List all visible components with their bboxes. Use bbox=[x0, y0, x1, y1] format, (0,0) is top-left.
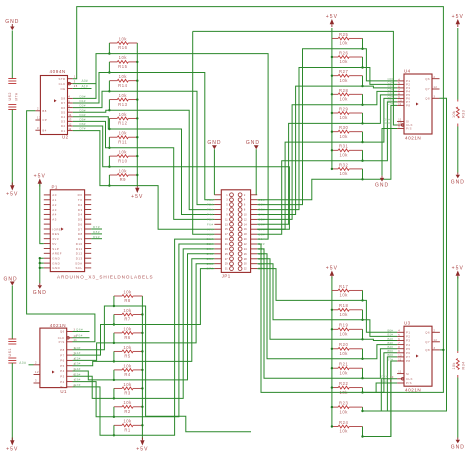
svg-text:R13: R13 bbox=[118, 102, 127, 107]
wire U$2 to +5V bbox=[11, 110, 13, 186]
svg-text:R22: R22 bbox=[339, 381, 348, 386]
wire net ROW1 U2 to ladder1 to JP1 bbox=[73, 73, 215, 200]
wire net COL7 JP1 to ladder2 to U4 bbox=[257, 105, 397, 199]
svg-text:+5V: +5V bbox=[34, 173, 46, 179]
wire net COL4 JP1 to ladder2 to U4 bbox=[257, 95, 397, 224]
wire R4 left stub to net bbox=[113, 370, 115, 380]
svg-text:A4: A4 bbox=[52, 213, 57, 217]
svg-text:D5: D5 bbox=[61, 110, 66, 114]
svg-text:+5V: +5V bbox=[136, 446, 148, 452]
wire net BROW4 U1 to ladder3 bbox=[73, 371, 114, 380]
wire net ROW7 U2 to ladder1 to JP1 bbox=[73, 131, 215, 230]
wire R5 left stub to net bbox=[113, 351, 115, 361]
svg-text:10: 10 bbox=[398, 354, 402, 357]
resistor R17 10k bbox=[332, 289, 338, 291]
wire P1 D7 labelled bbox=[91, 228, 102, 230]
svg-text:A2: A2 bbox=[52, 203, 57, 207]
svg-text:P7: P7 bbox=[60, 353, 64, 357]
svg-text:D1: D1 bbox=[61, 129, 66, 133]
ground GND right bottom bbox=[457, 438, 459, 440]
resistor R11 10k bbox=[109, 136, 117, 138]
resistor R21 10k bbox=[332, 367, 338, 369]
svg-text:OE: OE bbox=[61, 87, 66, 91]
svg-text:10k: 10k bbox=[123, 363, 132, 368]
svg-text:U1: U1 bbox=[60, 389, 67, 394]
svg-text:Q6: Q6 bbox=[425, 77, 430, 81]
svg-text:GND: GND bbox=[52, 261, 60, 265]
svg-text:2: 2 bbox=[434, 330, 436, 333]
resistor R30 10k bbox=[332, 131, 338, 133]
svg-text:3: 3 bbox=[35, 379, 37, 383]
svg-text:D5: D5 bbox=[78, 218, 83, 222]
svg-text:10k: 10k bbox=[339, 59, 348, 64]
svg-text:Q6: Q6 bbox=[60, 330, 65, 334]
svg-text:R7: R7 bbox=[124, 317, 131, 322]
svg-text:SLP: SLP bbox=[52, 247, 59, 251]
svg-text:D13: D13 bbox=[76, 257, 83, 261]
wire net BROW5 ladder3 to JP1 bbox=[114, 249, 214, 399]
wire R12 left stub to net bbox=[108, 118, 110, 129]
svg-text:B8: B8 bbox=[42, 109, 46, 113]
pin stubs P1 left bbox=[44, 194, 51, 196]
svg-text:E7#: E7# bbox=[75, 383, 81, 387]
svg-text:10k: 10k bbox=[339, 153, 348, 158]
svg-text:D6: D6 bbox=[78, 222, 83, 226]
svg-text:10k: 10k bbox=[119, 112, 128, 117]
svg-text:D4: D4 bbox=[61, 115, 66, 119]
svg-text:10k: 10k bbox=[339, 41, 348, 46]
wire R15 left stub to net bbox=[108, 62, 110, 73]
svg-text:10k: 10k bbox=[339, 351, 348, 356]
wire net BCOL1 JP1 to ladder4 to U3 bbox=[257, 264, 397, 337]
svg-text:PL: PL bbox=[60, 385, 64, 389]
supply +5V ladder3 bottom (down arrow) bbox=[140, 440, 144, 445]
svg-text:+5V: +5V bbox=[326, 14, 338, 20]
svg-text:D2: D2 bbox=[61, 124, 66, 128]
wire U1 Q6 labelled bbox=[73, 331, 90, 333]
op-amp U2 4094 shift register bbox=[40, 76, 67, 135]
svg-text:10k: 10k bbox=[339, 332, 348, 337]
wire net BROW4 ladder3 to JP1 bbox=[114, 254, 214, 380]
wire U2 pin CLK labelled A0 bbox=[73, 83, 96, 85]
connector P1 ARDUINO_X3_SHIELDNOLABELS bbox=[50, 190, 84, 272]
svg-text:5V: 5V bbox=[52, 242, 57, 246]
wire R24 right stub to net bbox=[362, 427, 364, 437]
wire GND to U$1 bbox=[11, 286, 13, 340]
wire net BCOL3 JP1 to ladder4 to U3 bbox=[257, 254, 397, 359]
svg-text:Q7: Q7 bbox=[425, 340, 430, 344]
svg-text:P2: P2 bbox=[60, 380, 64, 384]
svg-text:R33: R33 bbox=[461, 110, 465, 118]
wire U3 P/S spur to net bbox=[363, 383, 398, 392]
svg-text:11: 11 bbox=[68, 127, 71, 131]
svg-text:RES: RES bbox=[52, 232, 59, 236]
svg-text:D2: D2 bbox=[78, 203, 83, 207]
wire +5V bus ladder4 left bbox=[331, 277, 333, 427]
svg-text:B1#: B1# bbox=[258, 237, 265, 241]
svg-text:R29: R29 bbox=[339, 106, 348, 111]
resistor R10 10k bbox=[109, 155, 117, 157]
wire net BROW1 U1 to ladder3 bbox=[73, 325, 114, 356]
svg-text:12: 12 bbox=[68, 122, 72, 126]
svg-text:10k: 10k bbox=[123, 400, 132, 405]
wire R31 right stub to net bbox=[362, 150, 364, 160]
svg-text:SDA: SDA bbox=[75, 261, 82, 265]
svg-text:R23: R23 bbox=[339, 401, 348, 406]
svg-text:R12: R12 bbox=[118, 121, 127, 126]
svg-text:4021N: 4021N bbox=[405, 136, 421, 141]
svg-text:2: 2 bbox=[434, 76, 436, 79]
svg-text:11: 11 bbox=[74, 339, 78, 342]
wire net BROW2 ladder3 to JP1 bbox=[114, 264, 214, 343]
wire R7 left stub to net bbox=[113, 315, 115, 325]
svg-text:D6: D6 bbox=[61, 106, 66, 110]
resistor R2 10k bbox=[114, 406, 122, 408]
svg-text:P8: P8 bbox=[60, 348, 64, 352]
wire U2 pin OE labelled A1 bbox=[73, 88, 92, 90]
svg-text:GND: GND bbox=[52, 257, 60, 261]
wire U4 Q8 to U3 CLK cascade bbox=[381, 98, 446, 411]
ground GND below U4 bbox=[381, 176, 383, 178]
svg-text:F6#: F6# bbox=[207, 222, 214, 226]
svg-text:A0: A0 bbox=[52, 193, 57, 197]
resistor R8 10k bbox=[114, 295, 122, 297]
resistor R34 10k vertical bbox=[457, 351, 459, 353]
wire net BROW2 U1 to ladder3 bbox=[73, 343, 114, 361]
resistor R13 10k bbox=[109, 99, 117, 101]
wire +5V bus ladder2 left bbox=[331, 28, 333, 169]
svg-text:D7#: D7# bbox=[93, 225, 100, 229]
resistor R33 10k vertical bbox=[457, 100, 459, 102]
wire R32 right stub to net bbox=[362, 169, 364, 179]
resistor R7 10k bbox=[114, 314, 122, 316]
svg-text:R3: R3 bbox=[124, 391, 131, 396]
ground GND right middle bbox=[457, 173, 459, 175]
svg-text:E0#: E0# bbox=[75, 346, 81, 350]
svg-text:D7: D7 bbox=[61, 101, 66, 105]
wire GND to U$2 bbox=[11, 31, 13, 79]
svg-text:R32: R32 bbox=[339, 162, 348, 167]
wire R23 right stub to net bbox=[362, 407, 364, 411]
svg-text:12: 12 bbox=[434, 339, 438, 342]
svg-text:A0#: A0# bbox=[19, 361, 26, 365]
svg-text:D7: D7 bbox=[78, 227, 83, 231]
wire R34 to GND bbox=[457, 378, 459, 438]
resistor R9 10k bbox=[109, 174, 117, 176]
svg-text:D9#: D9# bbox=[93, 235, 100, 239]
svg-text:SI: SI bbox=[406, 372, 410, 376]
svg-text:D5#: D5# bbox=[80, 118, 86, 122]
svg-text:MTA: MTA bbox=[15, 92, 19, 100]
supply +5V ladder4 top bbox=[330, 271, 334, 276]
resistor R25 10k bbox=[332, 37, 338, 39]
svg-text:6: 6 bbox=[398, 338, 400, 341]
svg-text:10k: 10k bbox=[339, 78, 348, 83]
svg-text:Q6#: Q6# bbox=[76, 327, 83, 331]
wire U4 P/S to GND bbox=[382, 129, 397, 176]
wire net COL5 JP1 to ladder2 to U4 bbox=[257, 98, 397, 229]
wire P1 GND pins bus bbox=[40, 258, 44, 283]
wire net COL0 JP1 to ladder2 to U4 bbox=[257, 49, 397, 205]
svg-text:A3: A3 bbox=[52, 208, 57, 212]
wire net BROW5 U1 to ladder3 bbox=[73, 376, 114, 398]
svg-text:P8: P8 bbox=[406, 104, 410, 108]
svg-text:GND: GND bbox=[451, 180, 465, 186]
wire R3 left stub to net bbox=[113, 388, 115, 398]
svg-text:R15: R15 bbox=[118, 64, 127, 69]
svg-text:10k: 10k bbox=[339, 171, 348, 176]
svg-text:D7#: D7# bbox=[80, 127, 86, 131]
wire net BROW3 U1 to ladder3 bbox=[73, 361, 114, 365]
svg-text:P/S: P/S bbox=[406, 127, 412, 131]
svg-text:DS#: DS# bbox=[384, 118, 390, 122]
resistor R12 10k bbox=[109, 117, 117, 119]
svg-text:R6: R6 bbox=[124, 335, 131, 340]
wire net BROW0 ladder3 special route bbox=[114, 306, 251, 432]
svg-text:1: 1 bbox=[74, 74, 76, 78]
svg-text:R28: R28 bbox=[339, 88, 348, 93]
resistor R28 10k bbox=[332, 93, 338, 95]
svg-text:R16: R16 bbox=[118, 45, 127, 50]
resistor R18 10k bbox=[332, 309, 338, 311]
wire top rail2 to U4 CLK bbox=[193, 31, 397, 125]
wire R27 right stub to net bbox=[362, 76, 364, 86]
svg-text:+5V: +5V bbox=[131, 194, 143, 200]
svg-text:P/S: P/S bbox=[406, 381, 412, 385]
svg-text:D6#: D6# bbox=[80, 122, 86, 126]
svg-text:R30: R30 bbox=[339, 125, 348, 130]
svg-text:10k: 10k bbox=[339, 429, 348, 434]
wire net BCOL2 JP1 to ladder4 to U3 bbox=[257, 259, 397, 341]
wire net ROW4 U2 to ladder1 to JP1 bbox=[73, 117, 215, 215]
svg-text:R27: R27 bbox=[339, 69, 348, 74]
svg-text:2: 2 bbox=[37, 107, 39, 111]
svg-text:10k: 10k bbox=[119, 93, 128, 98]
svg-text:F7#: F7# bbox=[207, 227, 214, 231]
svg-text:R5: R5 bbox=[124, 354, 131, 359]
wire +5V bus ladder1 right bbox=[136, 43, 138, 186]
svg-text:15: 15 bbox=[74, 84, 78, 88]
svg-text:10k: 10k bbox=[339, 409, 348, 414]
svg-text:9: 9 bbox=[398, 126, 400, 129]
wire net COL2 JP1 to ladder2 to U4 bbox=[257, 86, 397, 214]
wire R6 left stub to net bbox=[113, 333, 115, 343]
svg-text:R21: R21 bbox=[339, 362, 348, 367]
wire net ROW0 U2 to ladder1 to JP1 bbox=[73, 54, 268, 240]
wire P1 D8 labelled bbox=[91, 233, 102, 235]
wire R1 left stub to net bbox=[113, 425, 115, 435]
svg-text:10k: 10k bbox=[123, 326, 132, 331]
resistor R22 10k bbox=[332, 387, 338, 389]
svg-text:14: 14 bbox=[68, 113, 72, 117]
svg-text:F1#: F1# bbox=[207, 198, 214, 202]
svg-text:R20: R20 bbox=[339, 342, 348, 347]
svg-text:11: 11 bbox=[398, 358, 402, 361]
pin stubs U2 left bbox=[35, 110, 40, 112]
connector JP1 pin header 2x16 bbox=[221, 190, 250, 273]
svg-text:+5V: +5V bbox=[452, 14, 464, 20]
svg-text:U$2: U$2 bbox=[8, 92, 12, 100]
resistor R3 10k bbox=[114, 387, 122, 389]
pin stubs U2 right bbox=[68, 78, 73, 80]
svg-text:10k: 10k bbox=[123, 345, 132, 350]
svg-text:R1: R1 bbox=[124, 428, 131, 433]
wire U3 CLK spur to net bbox=[363, 379, 398, 411]
pin stubs U3 bottom control bbox=[397, 373, 404, 375]
svg-text:10k: 10k bbox=[119, 55, 128, 60]
svg-text:U3: U3 bbox=[404, 321, 411, 326]
svg-text:3: 3 bbox=[74, 79, 76, 83]
wire R9 left stub to net bbox=[108, 175, 110, 186]
wire U1 left pin labelled A0 bbox=[29, 364, 34, 366]
wire GND to JP1 pin1 bbox=[213, 149, 215, 195]
svg-text:C7#: C7# bbox=[388, 102, 394, 106]
svg-text:10k: 10k bbox=[123, 382, 132, 387]
wire R28 right stub to net bbox=[362, 94, 364, 105]
svg-text:P5: P5 bbox=[60, 364, 64, 368]
svg-text:B7#: B7# bbox=[388, 357, 394, 361]
svg-text:3: 3 bbox=[434, 96, 436, 99]
pin stubs P1 right bbox=[85, 194, 92, 196]
svg-text:D4#: D4# bbox=[80, 113, 86, 117]
svg-text:SCL: SCL bbox=[75, 266, 82, 270]
svg-text:+5V: +5V bbox=[6, 446, 18, 452]
svg-text:P4: P4 bbox=[60, 369, 64, 373]
ground GND P1 bbox=[39, 283, 41, 285]
wire net BCOL5 JP1 to ladder4 to U3 bbox=[257, 244, 397, 392]
svg-text:12: 12 bbox=[434, 86, 438, 89]
svg-text:10k: 10k bbox=[339, 134, 348, 139]
svg-text:R9: R9 bbox=[120, 177, 127, 182]
resistor R16 10k bbox=[109, 42, 117, 44]
wire net BROW7 ladder3 to JP1 bbox=[114, 239, 214, 435]
svg-text:GND: GND bbox=[375, 183, 389, 189]
wire net ROW2 U2 to ladder1 to JP1 bbox=[73, 91, 215, 204]
svg-text:10k: 10k bbox=[339, 312, 348, 317]
svg-text:JP1: JP1 bbox=[222, 273, 231, 278]
resistor R14 10k bbox=[109, 80, 117, 82]
svg-text:F8#: F8# bbox=[207, 232, 214, 236]
svg-text:D0#: D0# bbox=[80, 95, 86, 99]
svg-text:P/S: P/S bbox=[59, 340, 65, 344]
svg-text:D10: D10 bbox=[76, 242, 83, 246]
wire +5V to P1 5V pin bbox=[40, 184, 44, 244]
svg-text:U4: U4 bbox=[404, 69, 411, 74]
svg-text:10k: 10k bbox=[452, 111, 456, 118]
wire net COL3 JP1 to ladder2 to U4 bbox=[257, 91, 397, 219]
wire R2 left stub to net bbox=[113, 407, 115, 417]
svg-text:CLK: CLK bbox=[59, 82, 66, 86]
svg-text:10k: 10k bbox=[123, 289, 132, 294]
svg-text:P1: P1 bbox=[52, 184, 58, 189]
op-amp U1 4021 shift register bbox=[40, 328, 67, 388]
svg-text:P0#: P0# bbox=[76, 334, 83, 338]
wire net BCOL7 ladder4 to U3 pin bbox=[363, 361, 398, 437]
svg-text:12: 12 bbox=[35, 370, 39, 374]
svg-text:D4: D4 bbox=[78, 213, 83, 217]
wire U2 pin STR to top rail bbox=[73, 7, 444, 393]
svg-text:10k: 10k bbox=[119, 36, 128, 41]
svg-text:+5V: +5V bbox=[326, 265, 338, 271]
svg-text:3: 3 bbox=[434, 347, 436, 350]
resistor R20 10k bbox=[332, 348, 338, 350]
svg-text:4094N: 4094N bbox=[50, 69, 66, 74]
svg-text:D1#: D1# bbox=[80, 99, 86, 103]
svg-text:D8#: D8# bbox=[93, 230, 100, 234]
wire net BCOL0 JP1 to ladder4 to U3 bbox=[257, 269, 397, 333]
svg-text:4021N: 4021N bbox=[405, 388, 421, 393]
svg-text:12: 12 bbox=[37, 116, 41, 120]
resistor R19 10k bbox=[332, 328, 338, 330]
svg-text:CK#: CK# bbox=[381, 375, 388, 379]
svg-text:F3#: F3# bbox=[207, 208, 214, 212]
wire R22 right stub to net bbox=[362, 388, 364, 393]
svg-text:10k: 10k bbox=[123, 308, 132, 313]
svg-text:R11: R11 bbox=[118, 139, 127, 144]
wire R14 left stub to net bbox=[108, 81, 110, 92]
wire net ROW6 U2 to ladder1 to JP1 bbox=[73, 126, 290, 229]
wire net BROW0 U1 to ladder3 bbox=[73, 306, 114, 350]
svg-text:8: 8 bbox=[398, 346, 400, 349]
svg-text:R19: R19 bbox=[339, 323, 348, 328]
wire net COL1 JP1 to ladder2 to U4 bbox=[257, 68, 397, 210]
wire net BROW1 ladder3 to JP1 bbox=[114, 269, 214, 325]
supply +5V right top bbox=[456, 19, 460, 24]
svg-text:R8: R8 bbox=[124, 298, 131, 303]
svg-text:3V3: 3V3 bbox=[52, 237, 59, 241]
svg-text:F2#: F2# bbox=[207, 203, 214, 207]
svg-text:3: 3 bbox=[37, 126, 39, 130]
svg-text:10k: 10k bbox=[119, 168, 128, 173]
svg-text:F4#: F4# bbox=[207, 213, 214, 217]
svg-text:Q8: Q8 bbox=[425, 97, 430, 101]
wire net BROW7 U1 to ladder3 bbox=[73, 387, 114, 435]
wire R8 left stub to net bbox=[113, 296, 115, 306]
wire +5V to R33 bbox=[457, 28, 459, 100]
svg-text:STR: STR bbox=[58, 77, 65, 81]
wire U$1 to +5V bbox=[11, 363, 13, 441]
svg-text:A0#: A0# bbox=[82, 79, 88, 83]
svg-text:E3#: E3# bbox=[75, 362, 81, 366]
svg-text:D9: D9 bbox=[78, 237, 83, 241]
svg-text:D3#: D3# bbox=[80, 108, 86, 112]
svg-text:RX: RX bbox=[78, 193, 83, 197]
wire net BCOL4 JP1 to ladder4 to U3 bbox=[257, 249, 397, 378]
node junction U3 Q8 on rail bbox=[442, 349, 444, 351]
svg-text:R26: R26 bbox=[339, 50, 348, 55]
svg-text:A1#: A1# bbox=[82, 84, 88, 88]
svg-text:R31: R31 bbox=[339, 144, 348, 149]
svg-text:B4: B4 bbox=[42, 128, 46, 132]
svg-text:U$1: U$1 bbox=[8, 348, 12, 356]
svg-text:Q7: Q7 bbox=[425, 87, 430, 91]
svg-text:CP: CP bbox=[42, 118, 47, 122]
svg-text:TX: TX bbox=[78, 198, 83, 202]
svg-text:E4#: E4# bbox=[75, 367, 81, 371]
svg-text:11: 11 bbox=[398, 371, 402, 374]
wire +5V to R34 bbox=[457, 277, 459, 352]
wire R17 right stub to net bbox=[362, 290, 364, 300]
svg-text:R10: R10 bbox=[118, 158, 127, 163]
resistor R1 10k bbox=[114, 424, 122, 426]
resistor R23 10k bbox=[332, 406, 338, 408]
wire rail2 to JP1 row9 bbox=[193, 31, 215, 234]
pin stubs U1 left bbox=[34, 364, 40, 366]
svg-text:10k: 10k bbox=[119, 131, 128, 136]
wire net COL6 JP1 to ladder2 to U4 bbox=[257, 102, 397, 234]
svg-text:Q6: Q6 bbox=[425, 331, 430, 335]
svg-text:2: 2 bbox=[35, 361, 37, 365]
